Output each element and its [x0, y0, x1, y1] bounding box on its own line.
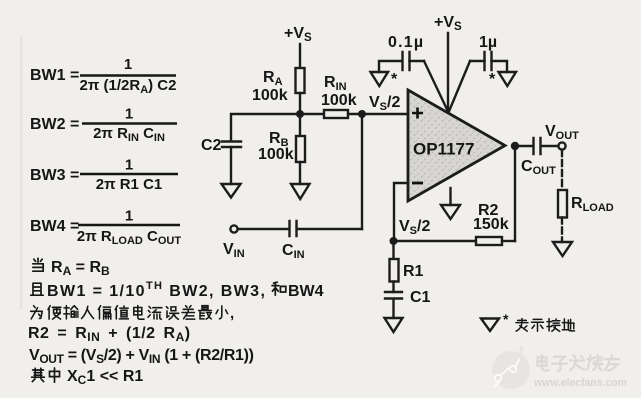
op-amp plus sign: [412, 108, 423, 119]
svg-text:*: *: [391, 71, 398, 88]
svg-text:VOUT: VOUT: [545, 123, 579, 142]
wire RA to node A: [299, 93, 301, 114]
ground under RB: [291, 184, 310, 199]
svg-text:BW1 =: BW1 =: [30, 67, 79, 84]
formula BW1 fraction bar: [80, 74, 176, 77]
svg-text:100k: 100k: [258, 146, 294, 163]
ground under 0.1u: [371, 72, 389, 86]
legend text biao shi jie di: [516, 318, 575, 331]
wire +VS left stem: [299, 44, 301, 68]
wire VIN to CIN: [238, 228, 289, 230]
wire RB to ground: [299, 162, 301, 184]
svg-text:www.elecfans.com: www.elecfans.com: [533, 377, 627, 389]
wire C2 to ground: [230, 147, 232, 184]
ground under op-amp: [441, 205, 460, 219]
wire 0.1u cap left to ground: [379, 61, 402, 72]
svg-text:2π RIN CIN: 2π RIN CIN: [93, 125, 165, 144]
resistor RB: [296, 136, 305, 162]
svg-text:C2: C2: [201, 137, 222, 154]
wire op-amp V- pin to ground: [449, 188, 451, 205]
node C feedback junction dot: [390, 237, 398, 245]
wire output node to COUT: [515, 145, 533, 147]
svg-text:1: 1: [125, 208, 133, 225]
ground under RLOAD: [553, 242, 572, 256]
capacitor C1: [385, 292, 402, 299]
ground under 1u: [499, 72, 517, 86]
svg-text:+VS: +VS: [284, 25, 312, 44]
capacitor 1u: [485, 52, 492, 70]
capacitor COUT: [534, 138, 541, 154]
svg-text:2π R1 C1: 2π R1 C1: [96, 176, 163, 193]
svg-text:BW3 =: BW3 =: [30, 167, 79, 184]
op-amp minus sign: [412, 182, 423, 185]
svg-text:XC1 << R1: XC1 << R1: [67, 368, 143, 387]
note line 2 char qie: [31, 283, 43, 295]
ground under C2: [222, 184, 241, 198]
resistor R2: [476, 237, 502, 245]
wire CIN to node B drop: [297, 228, 362, 230]
svg-text:1: 1: [124, 56, 132, 73]
svg-text:RA: RA: [263, 69, 283, 88]
resistor RA: [296, 68, 305, 93]
watermark logo circle: [492, 347, 530, 390]
wire op-amp minus input to feedback node: [394, 183, 408, 241]
wire node A to RIN: [300, 113, 324, 115]
svg-text:RLOAD: RLOAD: [571, 195, 614, 214]
wire feedback node to R1: [392, 241, 394, 259]
wire dashed VOUT to RLOAD: [561, 150, 563, 190]
note line 3 chinese sentence: [31, 306, 228, 320]
node A junction dot: [296, 110, 304, 118]
wire R1 to C1: [392, 282, 394, 293]
svg-text:COUT: COUT: [521, 158, 556, 177]
svg-text:BW2 =: BW2 =: [30, 116, 79, 133]
resistor RLOAD: [558, 190, 567, 218]
capacitor C2: [222, 142, 241, 148]
svg-text:R1: R1: [403, 263, 424, 280]
wire output down to feedback: [514, 146, 516, 241]
terminal VOUT open circle: [558, 142, 565, 149]
wire node B to op-amp plus input: [362, 113, 408, 115]
svg-text:*: *: [489, 71, 496, 88]
svg-text:1µ: 1µ: [479, 34, 497, 51]
wire +VS right stem: [447, 33, 449, 113]
terminal VIN open circle: [230, 225, 237, 232]
note line 6 chars qi zhong: [32, 368, 45, 381]
svg-text:VS/2: VS/2: [399, 218, 430, 237]
svg-text:VS/2: VS/2: [369, 94, 400, 113]
svg-text:1: 1: [125, 106, 133, 123]
resistor RIN: [324, 110, 348, 118]
node D output junction dot: [511, 142, 519, 150]
svg-text:BW1 = 1/10TH BW2, BW3,: BW1 = 1/10TH BW2, BW3,: [47, 280, 266, 300]
svg-text:BW4 =: BW4 =: [30, 218, 79, 235]
svg-text:100k: 100k: [321, 92, 357, 109]
wire C1 to ground: [392, 299, 394, 318]
watermark text dian zi fa shao you: [538, 355, 619, 371]
formula BW4 fraction bar: [78, 224, 180, 227]
wire feedback node to R2: [394, 240, 476, 242]
svg-text:CIN: CIN: [282, 242, 305, 261]
wire R2 to output drop: [502, 240, 515, 242]
svg-text:VOUT = (VS/2) + VIN (1 + (R2/R: VOUT = (VS/2) + VIN (1 + (R2/R1)): [29, 347, 254, 366]
node B junction dot: [358, 110, 366, 118]
ground under C1: [385, 318, 403, 332]
svg-text:,: ,: [230, 305, 234, 322]
wire diagonal from 1u cap to supply pin: [449, 61, 471, 113]
svg-text:150k: 150k: [473, 216, 509, 233]
svg-text:RIN: RIN: [324, 74, 347, 93]
wire 1u cap left: [470, 60, 485, 62]
capacitor CIN: [290, 221, 297, 236]
formula BW3 fraction bar: [80, 173, 178, 176]
svg-text:R2 = RIN + (1/2 RA): R2 = RIN + (1/2 RA): [28, 325, 191, 344]
svg-text:OP1177: OP1177: [413, 140, 474, 159]
wire RIN to node B: [348, 113, 362, 115]
wire node A left to C2: [231, 114, 300, 141]
svg-text:*: *: [503, 311, 509, 327]
formula BW2 fraction bar: [82, 122, 177, 125]
svg-text:C1: C1: [410, 289, 431, 306]
wire COUT to VOUT terminal: [541, 145, 559, 147]
svg-text:2π (1/2RA) C2: 2π (1/2RA) C2: [80, 77, 177, 96]
svg-text:2π RLOAD COUT: 2π RLOAD COUT: [77, 228, 182, 247]
svg-text:0.1µ: 0.1µ: [388, 34, 424, 51]
wire node B down to CIN: [361, 114, 363, 229]
svg-text:RA = RB: RA = RB: [51, 259, 110, 278]
resistor R1: [390, 259, 399, 282]
wire dashed RLOAD to ground: [561, 218, 563, 243]
note line 2 char he: [272, 282, 286, 295]
ground legend symbol: [481, 319, 499, 332]
capacitor 0.1u: [403, 52, 410, 70]
svg-text:100k: 100k: [252, 87, 288, 104]
wire 0.1u cap right: [410, 60, 425, 62]
wire diagonal from 0.1u cap to supply pin: [424, 61, 449, 113]
svg-text:+VS: +VS: [434, 14, 462, 33]
note line 1 char dang: [33, 258, 43, 271]
svg-text:1: 1: [125, 157, 133, 174]
svg-text:BW4: BW4: [288, 283, 324, 300]
wire 1u cap right to ground: [492, 61, 508, 72]
svg-text:VIN: VIN: [223, 241, 245, 260]
op-amp U1 OP1177: [408, 90, 505, 201]
wire node A to RB: [299, 114, 301, 136]
